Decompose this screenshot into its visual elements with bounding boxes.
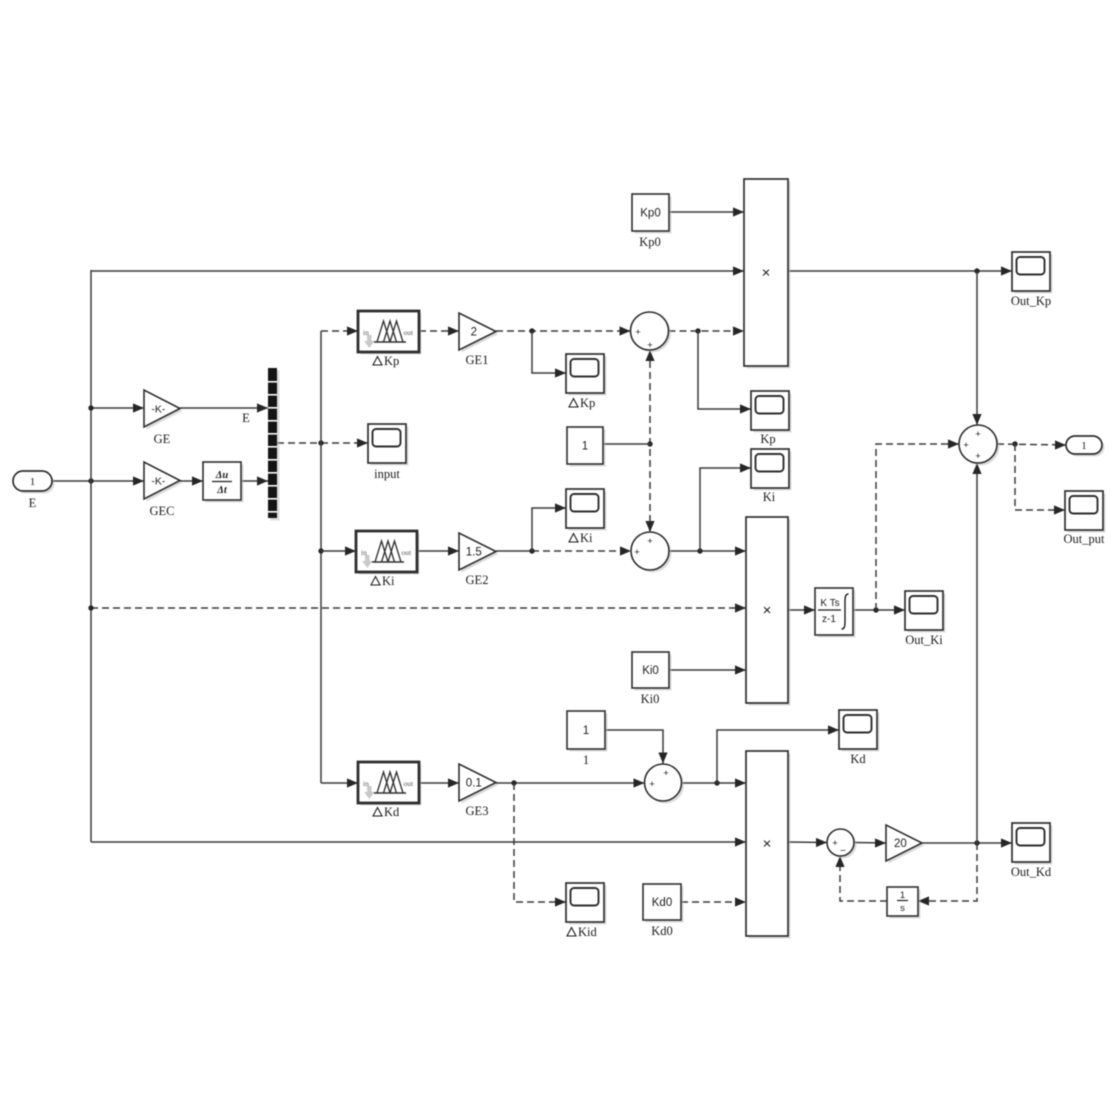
scope Kd bbox=[842, 713, 880, 752]
label scope dKi bbox=[569, 531, 593, 545]
svg-text:0.1: 0.1 bbox=[466, 778, 482, 790]
svg-text:out: out bbox=[402, 548, 413, 557]
svg-text:Out_put: Out_put bbox=[1064, 532, 1106, 546]
wire: 1/s output up into sum S5 bottom (dashed) bbox=[840, 856, 887, 901]
svg-text:-K-: -K- bbox=[151, 404, 166, 416]
constant Ki0 bbox=[635, 655, 672, 691]
discrete integrator K Ts/(z-1) bbox=[818, 591, 856, 638]
junction on GE2 output bbox=[529, 548, 534, 553]
svg-text:Out_Ki: Out_Ki bbox=[905, 633, 943, 647]
wire: E bus branch to gain GE bbox=[91, 407, 144, 409]
scope Out_Kd bbox=[1015, 826, 1053, 865]
wire: gain GE2 output to sum S2 (dashed after junction) bbox=[496, 550, 532, 552]
wire: E bus bottom row to product P3 bbox=[91, 841, 746, 843]
wire: integrator output to scope Out_Ki bbox=[853, 609, 905, 611]
svg-text:+: + bbox=[647, 536, 653, 547]
svg-text:out: out bbox=[404, 328, 415, 337]
svg-text:Out_Kd: Out_Kd bbox=[1011, 865, 1052, 879]
wire: left vertical E bus x=91 bbox=[90, 270, 92, 842]
scope Out_Kp bbox=[1015, 255, 1053, 294]
wire: fuzzy dKd output to gain GE3 bbox=[419, 782, 459, 784]
wire: fuzzy dKp output to gain GE1 (dashed) bbox=[419, 330, 459, 332]
junction E bus middle row bbox=[88, 605, 93, 610]
svg-text:-K-: -K- bbox=[151, 476, 166, 488]
svg-text:Ki: Ki bbox=[580, 531, 593, 545]
svg-text:out: out bbox=[404, 779, 415, 788]
svg-text:Δu: Δu bbox=[215, 470, 229, 481]
svg-text:+: + bbox=[975, 451, 981, 462]
wire: E bus middle row to product P2 (dashed) bbox=[91, 607, 746, 609]
wire: feedback down-left into 1/s block (dashed) bbox=[918, 843, 977, 901]
scope Kp bbox=[754, 394, 792, 433]
svg-text:+: + bbox=[647, 340, 653, 351]
scope dKid bbox=[569, 886, 607, 925]
wire: integrator branch up to sum S4 left (dashed) bbox=[876, 444, 959, 610]
svg-text:Ki: Ki bbox=[382, 574, 395, 588]
wire: constant Ki0 to product P2 bbox=[669, 669, 746, 671]
gain GE3 bbox=[462, 767, 499, 804]
wire: bus stub into fuzzy dKi bbox=[321, 550, 356, 552]
label scope dKid bbox=[567, 925, 598, 939]
svg-text:input: input bbox=[374, 467, 400, 481]
svg-text:×: × bbox=[763, 836, 772, 853]
gain GE bbox=[147, 393, 183, 430]
svg-text:Kp0: Kp0 bbox=[640, 208, 660, 220]
svg-text:1: 1 bbox=[583, 725, 589, 737]
svg-text:z-1: z-1 bbox=[822, 614, 836, 625]
constant 1 (middle) bbox=[570, 430, 606, 467]
label dKi bbox=[371, 574, 395, 588]
wire: fuzzy feed vertical bus x=321 bbox=[320, 331, 322, 783]
svg-text:+: + bbox=[663, 768, 669, 779]
gain 20 bbox=[889, 828, 925, 864]
junction on GE3 output bbox=[511, 780, 516, 785]
svg-text:1: 1 bbox=[30, 476, 36, 488]
svg-text:Ki: Ki bbox=[763, 490, 776, 504]
sum S1 (Kp) bbox=[633, 315, 671, 353]
outport 1 bbox=[1069, 439, 1105, 457]
svg-text:Out_Kp: Out_Kp bbox=[1011, 294, 1051, 308]
product P2 (Ki) bbox=[749, 520, 791, 706]
wire: sum S2 output to product P2 bbox=[669, 550, 746, 552]
constant Kd0 bbox=[646, 887, 684, 923]
svg-text:Δt: Δt bbox=[216, 485, 228, 496]
wire: inport E to gain GEC bbox=[52, 480, 144, 482]
junction on Mux output line bbox=[318, 440, 323, 445]
svg-text:+: + bbox=[635, 327, 641, 338]
wire: gain GE1 output to sum S1 (dashed) bbox=[496, 330, 631, 332]
junction on integrator output bbox=[873, 607, 878, 612]
label scope dKp bbox=[569, 396, 595, 410]
scope input bbox=[371, 427, 409, 466]
svg-text:×: × bbox=[762, 265, 771, 282]
wire: gain 20 output to scope Out_Kd bbox=[922, 842, 1012, 844]
svg-text:1: 1 bbox=[583, 753, 589, 767]
wire: constant Kp0 to product P1 bbox=[669, 211, 744, 213]
constant 1 (bottom) bbox=[570, 714, 608, 752]
sum S5 (Kd feedback) bbox=[830, 832, 857, 859]
sum S2 (Ki) bbox=[634, 535, 672, 573]
wire: product P1 output to scope Out_Kp bbox=[788, 270, 1012, 272]
wire: constant Kd0 to product P3 (dashed) bbox=[681, 901, 746, 903]
fuzzy controller dKi bbox=[359, 534, 420, 575]
svg-text:Kp: Kp bbox=[580, 396, 595, 410]
label dKd bbox=[373, 805, 400, 819]
fuzzy controller dKd bbox=[361, 765, 422, 806]
svg-text:Ki0: Ki0 bbox=[642, 665, 659, 677]
wire: constant 1 (bottom) to sum S3 top bbox=[605, 730, 663, 764]
wire: fuzzy dKi output to gain GE2 bbox=[417, 550, 459, 552]
svg-text:K Ts: K Ts bbox=[820, 598, 839, 609]
junction on gain 20 output bbox=[974, 840, 979, 845]
Mux block bbox=[271, 371, 280, 521]
wire: sum S5 output to gain 20 bbox=[854, 842, 886, 845]
junction on S4 output bbox=[1012, 441, 1017, 446]
svg-text:Ki0: Ki0 bbox=[641, 692, 660, 706]
svg-text:GE: GE bbox=[154, 432, 171, 446]
junction constant-1 feed bbox=[647, 441, 652, 446]
product P3 (Kd) bbox=[749, 754, 791, 939]
wire: branch up to dKi scope bbox=[532, 508, 566, 551]
wire: vertical between sums S1/S2 with constant feed (dashed) bbox=[649, 350, 651, 532]
scope Ki bbox=[754, 452, 792, 491]
wire: sum S1 output to product P1 (dashed) bbox=[669, 330, 745, 332]
junction on S3 output bbox=[714, 780, 719, 785]
wire: bus stub into fuzzy dKp (dashed) bbox=[321, 330, 358, 332]
constant Kp0 bbox=[635, 197, 672, 234]
svg-text:Kp: Kp bbox=[384, 354, 399, 368]
junction on GE1 output bbox=[529, 328, 534, 333]
gain GEC bbox=[147, 465, 183, 502]
svg-text:GE1: GE1 bbox=[466, 353, 489, 367]
wire: P1 output branch down into sum S4 top bbox=[976, 271, 978, 425]
junction on P1 output bbox=[974, 268, 979, 273]
wire: sum S4 output to outport (dashed) bbox=[997, 444, 1066, 445]
svg-text:+: + bbox=[975, 429, 981, 440]
junction on S1 output bbox=[695, 328, 700, 333]
svg-text:s: s bbox=[900, 903, 905, 914]
derivative block du/dt bbox=[206, 465, 244, 503]
junction fuzzy bus at dKi row bbox=[318, 548, 323, 553]
gain GE2 bbox=[462, 536, 499, 573]
wire: E bus top row to product P1 bbox=[91, 270, 744, 272]
junction on E line bbox=[88, 478, 93, 483]
svg-text:GEC: GEC bbox=[150, 504, 175, 518]
svg-text:1: 1 bbox=[582, 441, 588, 453]
fuzzy controller dKp bbox=[361, 314, 422, 355]
wire: derivative block output to Mux bbox=[241, 480, 268, 482]
inport 1 (E) bbox=[16, 474, 55, 494]
wire: gain GE3 output to sum S3 bbox=[496, 782, 645, 784]
sum S3 (Kd) bbox=[647, 767, 684, 804]
svg-text:E: E bbox=[242, 411, 250, 425]
svg-text:×: × bbox=[763, 602, 772, 619]
junction on S2 output bbox=[697, 548, 702, 553]
wire: product P2 output to integrator bbox=[788, 609, 815, 611]
svg-text:E: E bbox=[29, 496, 37, 510]
wire: S4 output branch down to scope Out_put (dashed) bbox=[1015, 444, 1065, 510]
scope Out_put bbox=[1068, 494, 1106, 533]
scope dKi bbox=[569, 492, 607, 531]
svg-text:+: + bbox=[832, 838, 838, 849]
svg-text:Kd0: Kd0 bbox=[652, 897, 672, 909]
wire: gain GEC output to derivative block bbox=[180, 480, 203, 482]
svg-text:+: + bbox=[634, 547, 640, 558]
sum S4 (output) bbox=[962, 428, 1000, 466]
svg-text:Kid: Kid bbox=[578, 925, 598, 939]
svg-text:1: 1 bbox=[900, 890, 905, 901]
wire: gain GE output to Mux bbox=[180, 407, 268, 409]
wire: branch up to Ki scope bbox=[700, 468, 751, 551]
svg-text:Kd: Kd bbox=[384, 805, 400, 819]
svg-text:+: + bbox=[649, 779, 655, 790]
wire: bus stub into fuzzy dKd bbox=[321, 782, 358, 784]
svg-text:20: 20 bbox=[894, 838, 907, 850]
svg-text:2: 2 bbox=[471, 327, 477, 339]
wire: branch up to Kd scope bbox=[717, 730, 839, 783]
wire: branch up into sum S4 bottom bbox=[976, 463, 978, 843]
svg-text:−: − bbox=[840, 846, 846, 857]
svg-text:Kp: Kp bbox=[760, 432, 775, 446]
svg-text:1: 1 bbox=[1081, 440, 1087, 452]
svg-text:Kd0: Kd0 bbox=[651, 924, 673, 938]
junction E bus at GE branch bbox=[88, 405, 93, 410]
svg-text:1.5: 1.5 bbox=[466, 547, 482, 559]
wire: branch down to Kp scope bbox=[698, 331, 751, 409]
product P1 (Kp) bbox=[747, 182, 791, 369]
gain GE1 bbox=[462, 316, 499, 353]
svg-text:Kp0: Kp0 bbox=[639, 235, 661, 249]
integrator block 1/s bbox=[890, 890, 921, 919]
scope Out_Ki bbox=[908, 594, 946, 633]
svg-text:+: + bbox=[963, 440, 969, 451]
svg-text:GE3: GE3 bbox=[466, 804, 489, 818]
scope dKp bbox=[569, 357, 607, 396]
svg-text:GE2: GE2 bbox=[466, 573, 489, 587]
wire: sum S3 output to product P3 bbox=[682, 782, 747, 784]
wire: branch down to dKid scope (dashed) bbox=[514, 783, 566, 902]
wire: constant 1 output to sum vertical bbox=[603, 443, 650, 445]
wire: product P3 output to sum S5 bbox=[788, 841, 827, 844]
label dKp bbox=[373, 354, 399, 368]
wire: branch down to dKp scope bbox=[532, 331, 566, 373]
wire: Mux output to input scope (dashed) bbox=[277, 442, 368, 444]
svg-text:Kd: Kd bbox=[850, 752, 866, 766]
